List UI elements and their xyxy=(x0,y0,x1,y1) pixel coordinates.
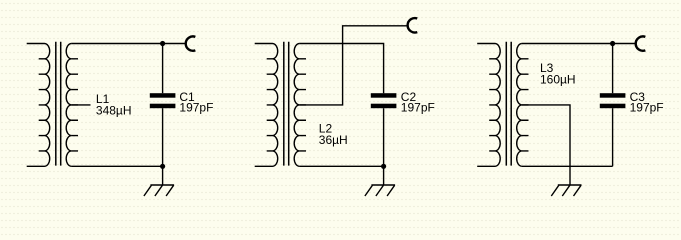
svg-text:348µH: 348µH xyxy=(96,103,132,117)
svg-text:36µH: 36µH xyxy=(319,133,348,147)
svg-text:197pF: 197pF xyxy=(179,101,213,115)
svg-text:160µH: 160µH xyxy=(540,73,576,87)
svg-text:197pF: 197pF xyxy=(630,101,664,115)
svg-text:197pF: 197pF xyxy=(401,101,435,115)
